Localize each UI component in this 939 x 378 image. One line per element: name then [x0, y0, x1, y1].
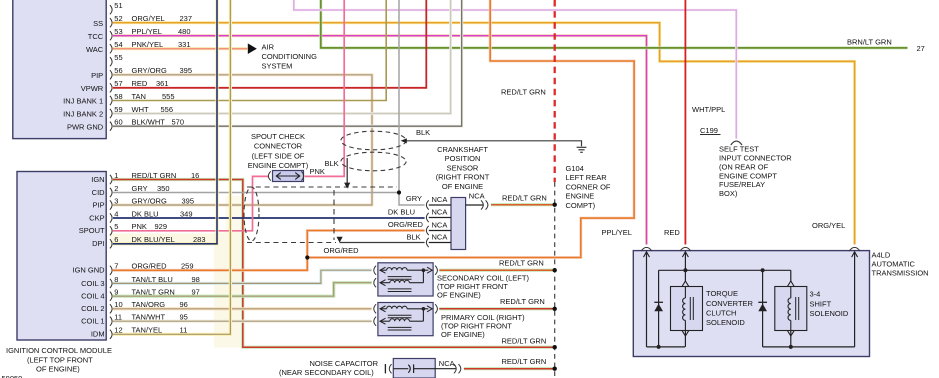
RED/LT GRN bus (red dashed): [554, 0, 556, 182]
svg-text:929: 929: [155, 222, 168, 231]
junction dot: [657, 345, 661, 349]
wire TAN/WHT 95 (ICM 11 to primary coil): [113, 320, 372, 323]
bottom rail right: [763, 346, 855, 348]
svg-text:SOLENOID: SOLENOID: [706, 318, 745, 327]
svg-text:COIL 3: COIL 3: [81, 279, 104, 288]
svg-text:INJ BANK 2: INJ BANK 2: [63, 110, 103, 119]
svg-text:ORG/YEL: ORG/YEL: [132, 14, 165, 23]
svg-text:54: 54: [114, 40, 122, 49]
svg-text:NCA: NCA: [432, 233, 448, 242]
svg-text:58: 58: [114, 92, 122, 101]
svg-text:NCA: NCA: [469, 191, 485, 200]
svg-text:556: 556: [161, 105, 174, 114]
wire ORG/YEL 237 (PCM 52 to transmission ORG/YEL): [113, 23, 855, 245]
primary coil body: [378, 303, 433, 336]
junction dot: [761, 268, 765, 272]
svg-text:11: 11: [180, 326, 188, 335]
svg-text:60: 60: [114, 118, 122, 127]
svg-text:BRN/LT GRN: BRN/LT GRN: [847, 37, 892, 46]
svg-text:TAN/LT BLU: TAN/LT BLU: [132, 275, 173, 284]
RED/LT GRN bus (black dashed): [554, 182, 556, 378]
wire WHT/PPL (to C199 self test connector): [294, 0, 737, 139]
svg-text:(LEFT SIDE OF: (LEFT SIDE OF: [252, 151, 305, 160]
svg-text:95: 95: [180, 313, 188, 322]
svg-text:96: 96: [180, 300, 188, 309]
svg-text:56: 56: [114, 66, 122, 75]
junction dot: [305, 255, 309, 259]
svg-text:ENGINE COMPT: ENGINE COMPT: [719, 171, 777, 180]
shield-to-BLK arrow: [337, 237, 343, 243]
svg-text:27: 27: [917, 44, 925, 53]
diode D1: [658, 270, 660, 347]
svg-text:570: 570: [172, 118, 185, 127]
svg-text:283: 283: [193, 235, 206, 244]
C199 self test connector: [700, 134, 721, 136]
wire GRY vertical from top to sensor pin 1: [399, 0, 425, 205]
svg-text:97: 97: [192, 288, 200, 297]
A/C system arrow: [248, 43, 257, 54]
svg-text:ORG/RED: ORG/RED: [388, 220, 424, 229]
wire TAN/YEL 11 (ICM 12, up to top edge): [113, 0, 230, 334]
ground G104: [577, 146, 587, 148]
svg-text:TORQUE: TORQUE: [706, 289, 738, 298]
junction dot: [683, 268, 687, 272]
svg-text:SHIFT: SHIFT: [810, 299, 832, 308]
svg-text:51: 51: [114, 1, 122, 10]
crankshaft sensor body: [451, 198, 466, 250]
svg-text:55: 55: [114, 53, 122, 62]
svg-text:NOISE CAPACITOR: NOISE CAPACITOR: [310, 359, 379, 368]
junction dot: [422, 268, 426, 272]
wire RED/LT GRN (sensor output to bus): [491, 203, 555, 206]
svg-text:59: 59: [114, 105, 122, 114]
shield dashed rung: [333, 190, 335, 240]
svg-text:BLK: BLK: [416, 128, 430, 137]
junction dot: [553, 307, 557, 311]
svg-text:349: 349: [180, 209, 193, 218]
svg-text:6: 6: [114, 235, 118, 244]
svg-text:BOX): BOX): [719, 189, 738, 198]
svg-text:WHT: WHT: [132, 105, 149, 114]
wire RED/LT GRN (primary coil to bus): [439, 307, 554, 310]
ICM pin cavities and numbers: [110, 175, 112, 184]
svg-text:RED/LT GRN: RED/LT GRN: [132, 171, 177, 180]
svg-text:10: 10: [114, 300, 122, 309]
wire BLK to G104: [403, 141, 582, 147]
svg-text:ORG/RED: ORG/RED: [324, 246, 360, 255]
transmission entry connectors: [641, 247, 652, 251]
svg-text:(LEFT TOP FRONT: (LEFT TOP FRONT: [27, 355, 93, 364]
svg-text:COIL 1: COIL 1: [81, 317, 104, 326]
svg-text:5: 5: [114, 222, 118, 231]
svg-text:98: 98: [192, 275, 200, 284]
svg-text:555: 555: [162, 92, 175, 101]
svg-text:PPL/YEL: PPL/YEL: [132, 27, 162, 36]
svg-text:GRY: GRY: [406, 194, 422, 203]
svg-text:16: 16: [191, 171, 199, 180]
svg-text:RED: RED: [664, 228, 680, 237]
wire PPL/YEL 480 (PCM 53 to TCC solenoid): [113, 36, 647, 245]
svg-text:FUSE/RELAY: FUSE/RELAY: [719, 180, 765, 189]
svg-text:CID: CID: [92, 188, 106, 197]
svg-text:9: 9: [114, 288, 118, 297]
ORG/YEL inside drop: [854, 252, 856, 347]
svg-text:CLUTCH: CLUTCH: [706, 309, 736, 318]
svg-text:OF ENGINE: OF ENGINE: [442, 182, 483, 191]
svg-text:PIP: PIP: [93, 200, 105, 209]
svg-text:4: 4: [114, 209, 118, 218]
svg-text:PNK/YEL: PNK/YEL: [132, 40, 164, 49]
wire BLK/WHT 570 (PCM 60): [113, 0, 462, 126]
svg-text:A4LD: A4LD: [872, 250, 891, 259]
svg-text:SENSOR: SENSOR: [447, 163, 479, 172]
svg-text:SYSTEM: SYSTEM: [262, 62, 293, 71]
svg-text:OF ENGINE): OF ENGINE): [437, 290, 481, 299]
wire ORG/RED 259 (ICM 7, sensor shield drain and branch from top): [113, 231, 425, 271]
wire DK BLU/YEL 283 (ICM 6, up to top edge): [113, 0, 217, 244]
diode D2: [762, 270, 764, 347]
svg-text:IGN GND: IGN GND: [73, 266, 106, 275]
svg-text:NCA: NCA: [432, 221, 448, 230]
wire BLK (sensor pin 4): [340, 242, 425, 244]
svg-text:59050: 59050: [2, 374, 23, 378]
svg-text:PWR GND: PWR GND: [67, 122, 104, 131]
svg-text:AIR: AIR: [262, 43, 275, 52]
svg-text:(ON REAR OF: (ON REAR OF: [719, 162, 769, 171]
shield left end cap: [244, 187, 259, 241]
svg-text:COIL 2: COIL 2: [81, 304, 104, 313]
A4LD automatic transmission box: [633, 251, 869, 357]
svg-text:GRY/ORG: GRY/ORG: [132, 66, 167, 75]
top rail: [659, 269, 791, 271]
wire TAN/LT BLU 98 (ICM 8 to secondary coil): [113, 270, 372, 283]
svg-text:2: 2: [114, 184, 118, 193]
svg-text:RED/LT GRN: RED/LT GRN: [500, 297, 545, 306]
svg-text:TAN/LT GRN: TAN/LT GRN: [132, 288, 175, 297]
svg-text:DK BLU: DK BLU: [132, 209, 159, 218]
svg-text:NCA: NCA: [439, 359, 455, 368]
svg-text:SPOUT CHECK: SPOUT CHECK: [251, 132, 305, 141]
wire RED/LT GRN (secondary coil to bus): [439, 269, 554, 272]
svg-text:AUTOMATIC: AUTOMATIC: [872, 259, 916, 268]
svg-text:INJ BANK 1: INJ BANK 1: [63, 97, 103, 106]
svg-text:3: 3: [114, 196, 118, 205]
svg-text:TAN/ORG: TAN/ORG: [132, 300, 166, 309]
svg-text:LEFT REAR: LEFT REAR: [566, 173, 608, 182]
svg-text:TRANSMISSION: TRANSMISSION: [872, 268, 929, 277]
svg-text:57: 57: [114, 79, 122, 88]
svg-text:BLK/WHT: BLK/WHT: [132, 118, 166, 127]
svg-text:1: 1: [114, 171, 118, 180]
wire DK BLU 349 (ICM 4 to CKP sensor): [113, 217, 425, 219]
svg-text:GRY: GRY: [132, 184, 148, 193]
svg-text:395: 395: [182, 196, 195, 205]
svg-text:C199: C199: [700, 126, 718, 135]
svg-text:CONDITIONING: CONDITIONING: [262, 52, 318, 61]
shield cylinder around vertical harness: [341, 131, 406, 150]
svg-text:RED/LT GRN: RED/LT GRN: [502, 336, 547, 345]
shield dashed bottom line: [247, 242, 336, 244]
junction dot: [789, 345, 793, 349]
svg-text:OF ENGINE): OF ENGINE): [441, 330, 485, 339]
svg-text:NCA: NCA: [432, 195, 448, 204]
wire BRN/LT GRN (to 27): [321, 0, 908, 48]
svg-text:BLK: BLK: [325, 159, 339, 168]
junction dot: [422, 307, 426, 311]
svg-text:RED/LT GRN: RED/LT GRN: [499, 259, 544, 268]
wire WHT 556 (PCM 59): [113, 0, 451, 114]
wire TAN/ORG 96 (ICM 10 to primary coil): [113, 307, 372, 310]
svg-text:VPWR: VPWR: [81, 84, 104, 93]
SPOUT check connector: [268, 171, 270, 180]
svg-text:3-4: 3-4: [810, 290, 821, 299]
svg-text:RED/LT GRN: RED/LT GRN: [501, 87, 546, 96]
svg-text:IGNITION CONTROL MODULE: IGNITION CONTROL MODULE: [6, 346, 112, 355]
secondary coil body: [378, 263, 433, 296]
svg-text:TAN/WHT: TAN/WHT: [132, 313, 166, 322]
svg-text:237: 237: [180, 14, 193, 23]
3-4 shift solenoid: [790, 270, 792, 282]
svg-text:(RIGHT FRONT: (RIGHT FRONT: [436, 173, 490, 182]
svg-text:(NEAR SECONDARY COIL): (NEAR SECONDARY COIL): [279, 368, 374, 377]
wire RED (to transmission): [684, 0, 686, 245]
wire PNK/YEL 331 (PCM 54 to A/C system): [113, 47, 247, 50]
svg-text:SELF TEST: SELF TEST: [719, 145, 759, 154]
svg-text:CONNECTOR: CONNECTOR: [254, 141, 303, 150]
svg-text:RED/LT GRN: RED/LT GRN: [502, 194, 547, 203]
svg-text:NCA: NCA: [432, 208, 448, 217]
wire RED/LT GRN (noise capacitor to bus): [464, 367, 555, 370]
svg-text:350: 350: [157, 184, 170, 193]
svg-text:RED: RED: [132, 79, 148, 88]
svg-text:DK BLU: DK BLU: [388, 207, 415, 216]
noise capacitor body: [384, 364, 386, 373]
torque converter clutch solenoid: [684, 252, 686, 282]
junction dot: [553, 203, 557, 207]
svg-text:BLK: BLK: [407, 232, 421, 241]
svg-text:TAN/YEL: TAN/YEL: [132, 326, 163, 335]
svg-text:COMPT): COMPT): [566, 201, 596, 210]
wire PNK 929 (ICM 5 to SPOUT connector): [113, 176, 268, 230]
svg-text:GRY/ORG: GRY/ORG: [132, 196, 167, 205]
svg-text:SS: SS: [93, 19, 103, 28]
sensor output pin NCA: [466, 204, 484, 206]
svg-text:8: 8: [114, 275, 118, 284]
junction dot: [553, 268, 557, 272]
junction dot: [553, 367, 557, 371]
highlight wash row 6 DK BLU/YEL: [110, 234, 217, 246]
svg-text:ORG/RED: ORG/RED: [132, 262, 168, 271]
svg-text:TAN: TAN: [132, 92, 146, 101]
junction dot: [553, 345, 557, 349]
internal wiring left: [646, 252, 648, 347]
svg-text:PPL/YEL: PPL/YEL: [602, 228, 632, 237]
wire GRY 350 (ICM 2 to CKP sensor): [113, 192, 399, 194]
svg-text:CORNER OF: CORNER OF: [566, 182, 611, 191]
PCM pin cavities and numbers: [110, 5, 112, 14]
svg-text:RED/LT GRN: RED/LT GRN: [502, 357, 547, 366]
svg-text:WHT/PPL: WHT/PPL: [692, 105, 725, 114]
svg-text:WAC: WAC: [86, 45, 104, 54]
svg-text:12: 12: [114, 326, 122, 335]
svg-text:CRANKSHAFT: CRANKSHAFT: [437, 145, 488, 154]
svg-text:480: 480: [178, 27, 191, 36]
wire TAN/LT GRN 97 (ICM 9 to secondary coil): [113, 283, 372, 297]
highlight wash around TAN/YEL vertical: [214, 233, 243, 348]
svg-text:G104: G104: [566, 164, 584, 173]
svg-text:OF ENGINE): OF ENGINE): [36, 364, 80, 373]
svg-text:IDM: IDM: [91, 330, 105, 339]
svg-text:POSITION: POSITION: [445, 154, 481, 163]
PCM connector box (pins 51-60): [13, 0, 106, 139]
svg-text:ORG/YEL: ORG/YEL: [812, 221, 845, 230]
svg-text:ENGINE COMPT): ENGINE COMPT): [248, 161, 309, 170]
svg-text:53: 53: [114, 27, 122, 36]
junction dot: [397, 190, 401, 194]
svg-text:331: 331: [178, 40, 191, 49]
svg-text:PIP: PIP: [91, 71, 103, 80]
shield drain stub with arrow: [346, 158, 348, 183]
svg-text:CONVERTER: CONVERTER: [706, 299, 754, 308]
svg-text:7: 7: [114, 262, 118, 271]
svg-text:ENGINE: ENGINE: [566, 192, 595, 201]
wire PNK from top edge to SPOUT connector: [305, 0, 344, 176]
svg-text:11: 11: [114, 313, 122, 322]
svg-text:TCC: TCC: [88, 32, 104, 41]
svg-text:DK BLU/YEL: DK BLU/YEL: [132, 235, 175, 244]
svg-text:COIL 4: COIL 4: [81, 292, 104, 301]
wire RED 361 (PCM 57): [113, 0, 426, 88]
svg-text:395: 395: [180, 66, 193, 75]
svg-text:PNK: PNK: [310, 167, 325, 176]
svg-text:PNK: PNK: [132, 222, 147, 231]
wire RED/LT GRN 16 (ICM 1 to RED/LT GRN bus): [113, 180, 555, 348]
sensor pins NCA: [426, 200, 428, 209]
wire GRY/ORG 395 (PCM 56 and ICM pin 3): [113, 75, 372, 205]
ignition control module box: [17, 172, 106, 341]
svg-text:SOLENOID: SOLENOID: [810, 309, 849, 318]
shield dashed top line: [247, 186, 397, 188]
svg-text:259: 259: [181, 262, 194, 271]
svg-text:IGN: IGN: [91, 175, 104, 184]
svg-text:SPOUT: SPOUT: [79, 226, 105, 235]
wire TAN 555 (PCM 58): [113, 0, 386, 101]
svg-text:CKP: CKP: [89, 213, 104, 222]
svg-text:361: 361: [156, 79, 169, 88]
svg-text:INPUT CONNECTOR: INPUT CONNECTOR: [719, 154, 792, 163]
svg-text:52: 52: [114, 14, 122, 23]
svg-text:DPI: DPI: [92, 239, 105, 248]
